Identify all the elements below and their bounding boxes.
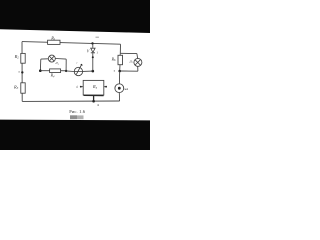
node at diode branch bottom: [92, 70, 95, 73]
label R4: [50, 73, 55, 79]
milliammeter P2: [115, 84, 124, 93]
node right of R4: [65, 70, 67, 72]
node on bottom wire: [92, 100, 95, 103]
wire R6 top lead: [119, 53, 121, 55]
wire lamp branch right drop: [65, 59, 67, 71]
wire right rail top corner: [119, 44, 121, 53]
wire P2 top lead: [118, 71, 120, 84]
terminal tick a: [19, 71, 21, 74]
box bottom lead: [93, 96, 95, 102]
label P2: [123, 87, 128, 91]
label R5: [92, 84, 98, 90]
relay box R5: [83, 80, 104, 95]
resistor R6 (right vertical): [118, 55, 123, 64]
node on left rail: [21, 71, 23, 73]
box right terminal stub: [104, 86, 107, 88]
label R1: [50, 35, 56, 41]
caption: [69, 109, 86, 114]
label HL2: [128, 59, 133, 64]
wire P1 right to diode branch: [83, 70, 93, 72]
label R2: [14, 54, 20, 60]
wire lower right connector: [120, 70, 138, 72]
wire P1 left: [66, 70, 74, 73]
wire P2 bottom lead: [118, 93, 120, 101]
terminal node left of R4: [39, 69, 42, 72]
svg-text:R3: R3: [13, 84, 19, 90]
lamp HL2: [134, 58, 142, 66]
resistor R1 (top rail): [48, 40, 60, 44]
svg-text:мА: мА: [123, 87, 128, 91]
svg-text:R5: R5: [92, 84, 98, 90]
diode V1: [91, 48, 95, 53]
node under R6: [118, 70, 121, 73]
wire HL2 bottom lead: [137, 67, 139, 72]
svg-text:R2: R2: [14, 54, 20, 60]
tick below diode: [92, 56, 94, 58]
wire lamp branch left drop: [39, 59, 41, 70]
label R6: [111, 56, 116, 62]
resistor R2 (left rail upper): [21, 53, 25, 63]
resistor R4 (parallel with HL1): [50, 69, 61, 73]
scan black band top: [0, 0, 150, 33]
wire diode branch lower: [92, 53, 94, 71]
label R3: [13, 84, 19, 90]
scan black band bottom: [0, 120, 150, 150]
wire right horizontal feed: [120, 52, 137, 54]
faint speck: [96, 37, 99, 38]
caption smudge: [70, 115, 84, 119]
wire diode branch upper: [92, 43, 94, 47]
svg-text:г: г: [76, 61, 77, 64]
svg-text:R1: R1: [50, 35, 56, 41]
label HL1: [54, 61, 59, 66]
label b: [76, 86, 78, 89]
svg-text:Рис. 1.6: Рис. 1.6: [69, 109, 86, 114]
tick label a: [114, 69, 116, 72]
tiny speck: [97, 104, 99, 106]
label V1: [87, 49, 99, 55]
wire HL2 top lead: [136, 54, 139, 59]
bottom wire: [22, 100, 119, 102]
wire R4 leads: [40, 70, 66, 72]
node on top rail at diode tap: [91, 42, 93, 44]
wire lamp branch top: [41, 58, 66, 61]
box left terminal stub: [80, 86, 83, 88]
lamp HL1: [48, 55, 55, 62]
galvanometer P1: [74, 64, 83, 76]
page background: [0, 0, 150, 150]
wire R6 bottom lead: [119, 65, 121, 71]
top wire (positive rail): [22, 42, 121, 45]
label P1: [76, 61, 77, 64]
left wire (left rail): [21, 42, 23, 102]
svg-text:Л2: Л2: [128, 59, 133, 64]
svg-text:Л1: Л1: [54, 61, 59, 66]
resistor R3 (left rail lower): [21, 83, 25, 93]
